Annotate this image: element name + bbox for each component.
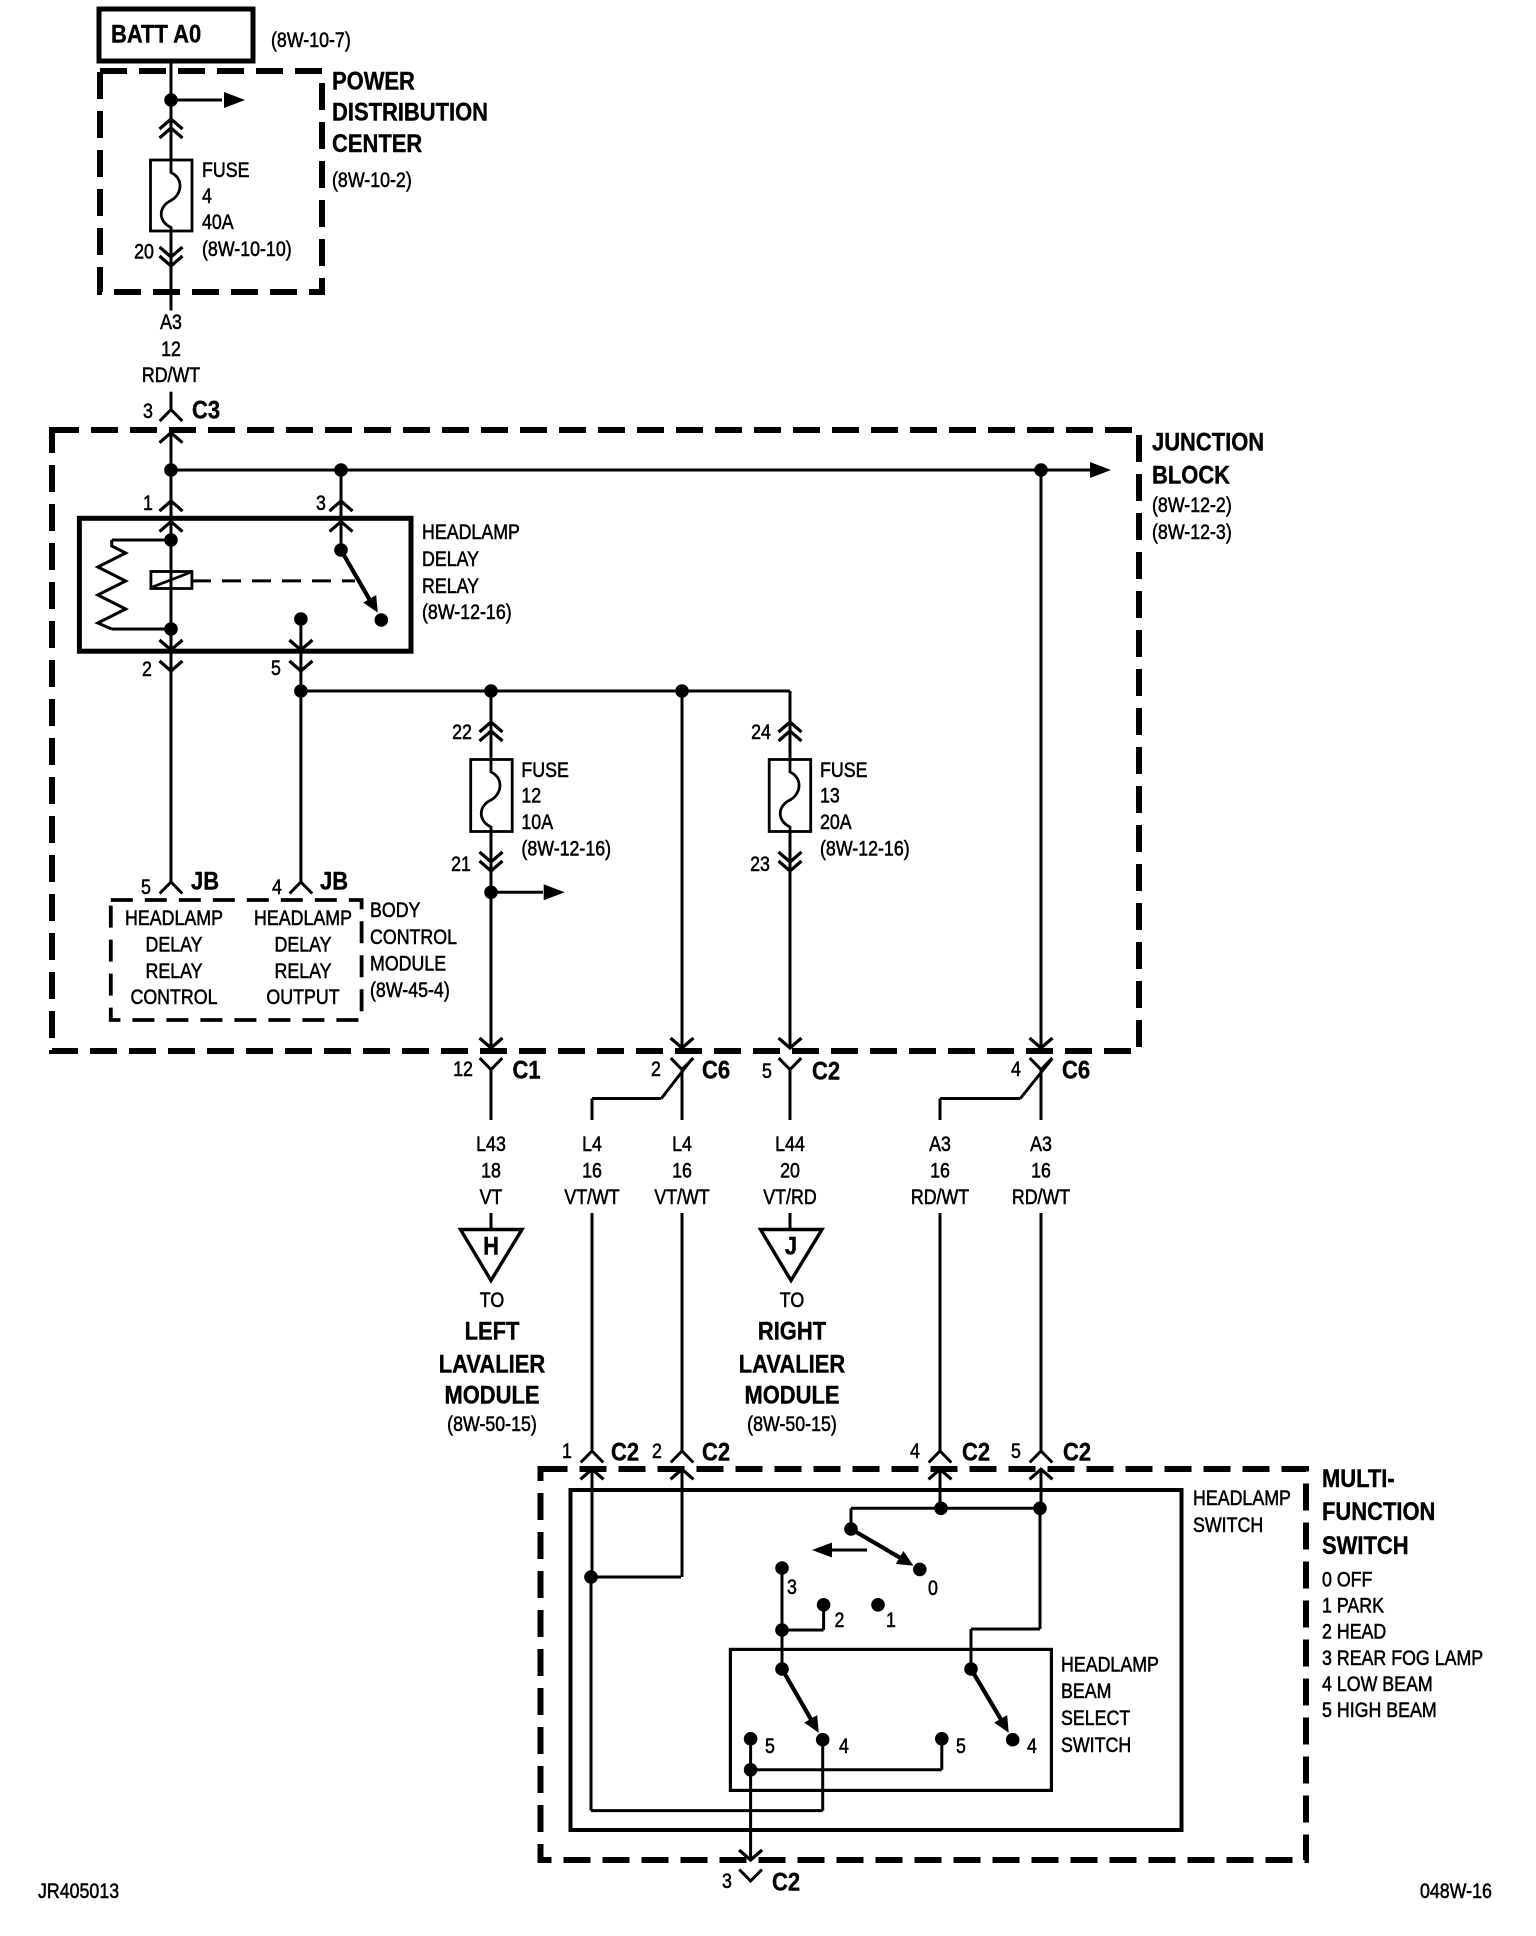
svg-text:3: 3 [143,400,153,424]
svg-text:C6: C6 [702,1056,730,1084]
svg-text:SWITCH: SWITCH [1061,1734,1131,1758]
svg-text:CENTER: CENTER [332,130,422,158]
svg-text:(8W-12-16): (8W-12-16) [521,837,611,861]
svg-text:JR405013: JR405013 [38,1880,119,1904]
svg-text:1 PARK: 1 PARK [1322,1594,1384,1618]
svg-text:1: 1 [562,1440,572,1464]
svg-text:C6: C6 [1062,1056,1090,1084]
svg-text:4: 4 [839,1735,849,1759]
svg-text:16: 16 [672,1159,692,1183]
svg-text:LAVALIER: LAVALIER [739,1350,845,1378]
svg-text:A3: A3 [929,1133,951,1157]
svg-text:JUNCTION: JUNCTION [1152,428,1264,456]
svg-text:22: 22 [452,721,472,745]
svg-text:5: 5 [956,1735,966,1759]
svg-text:FUSE: FUSE [521,758,568,782]
svg-text:2: 2 [651,1058,661,1082]
svg-text:C2: C2 [1063,1438,1091,1466]
svg-text:C2: C2 [812,1057,840,1085]
svg-text:SWITCH: SWITCH [1322,1532,1409,1560]
svg-text:(8W-10-7): (8W-10-7) [271,29,351,53]
svg-text:18: 18 [481,1159,501,1183]
svg-text:12: 12 [453,1058,473,1082]
svg-text:BLOCK: BLOCK [1152,461,1230,489]
svg-text:3 REAR FOG LAMP: 3 REAR FOG LAMP [1322,1647,1483,1671]
svg-text:16: 16 [1031,1159,1051,1183]
svg-text:048W-16: 048W-16 [1420,1880,1492,1904]
svg-text:2 HEAD: 2 HEAD [1322,1620,1386,1644]
svg-text:1: 1 [143,492,153,516]
svg-text:HEADLAMP: HEADLAMP [1061,1653,1159,1677]
svg-text:5: 5 [271,657,281,681]
svg-text:RD/WT: RD/WT [1012,1186,1070,1210]
svg-text:(8W-12-16): (8W-12-16) [422,601,512,625]
svg-text:JB: JB [320,867,348,895]
svg-text:RELAY: RELAY [145,960,202,984]
svg-text:SELECT: SELECT [1061,1707,1130,1731]
svg-text:C3: C3 [192,396,220,424]
svg-text:POWER: POWER [332,67,415,95]
svg-text:VT/WT: VT/WT [654,1186,709,1210]
svg-text:1: 1 [886,1609,896,1633]
svg-text:TO: TO [480,1289,504,1313]
svg-text:HEADLAMP: HEADLAMP [254,907,352,931]
svg-text:4: 4 [1027,1735,1037,1759]
svg-text:BEAM: BEAM [1061,1680,1111,1704]
svg-text:L44: L44 [775,1133,805,1157]
svg-text:40A: 40A [202,211,234,235]
svg-text:2: 2 [652,1440,662,1464]
svg-text:12: 12 [161,338,181,362]
svg-text:3: 3 [787,1576,797,1600]
svg-text:2: 2 [835,1609,845,1633]
svg-text:(8W-12-2): (8W-12-2) [1152,494,1232,518]
svg-text:RELAY: RELAY [422,575,479,599]
svg-text:21: 21 [451,853,471,877]
svg-text:DELAY: DELAY [145,933,202,957]
svg-text:16: 16 [582,1159,602,1183]
svg-text:CONTROL: CONTROL [130,986,217,1010]
svg-text:HEADLAMP: HEADLAMP [422,521,520,545]
svg-text:(8W-12-16): (8W-12-16) [820,837,910,861]
svg-text:VT/RD: VT/RD [763,1186,816,1210]
svg-text:5: 5 [1011,1440,1021,1464]
svg-text:H: H [483,1232,499,1260]
svg-text:FUSE: FUSE [202,159,249,183]
svg-text:HEADLAMP: HEADLAMP [125,907,223,931]
svg-text:24: 24 [751,721,771,745]
svg-text:OUTPUT: OUTPUT [266,986,339,1010]
svg-text:RELAY: RELAY [274,960,331,984]
svg-text:RIGHT: RIGHT [758,1317,827,1345]
svg-text:4: 4 [1011,1058,1021,1082]
svg-text:C2: C2 [962,1438,990,1466]
svg-text:L43: L43 [476,1133,506,1157]
svg-text:(8W-10-10): (8W-10-10) [202,238,292,262]
svg-text:23: 23 [750,853,770,877]
svg-text:L4: L4 [672,1133,692,1157]
svg-text:BATT A0: BATT A0 [111,20,201,48]
svg-text:C2: C2 [772,1868,800,1896]
svg-text:CONTROL: CONTROL [370,926,457,950]
svg-text:J: J [785,1232,797,1260]
svg-text:4: 4 [202,184,212,208]
svg-text:MODULE: MODULE [370,952,446,976]
svg-text:FUNCTION: FUNCTION [1322,1498,1435,1526]
svg-text:DELAY: DELAY [422,548,479,572]
svg-text:10A: 10A [521,811,553,835]
svg-text:(8W-50-15): (8W-50-15) [747,1413,837,1437]
svg-text:RD/WT: RD/WT [911,1186,969,1210]
svg-text:TO: TO [780,1289,804,1313]
svg-text:HEADLAMP: HEADLAMP [1193,1487,1291,1511]
svg-text:MODULE: MODULE [444,1381,539,1409]
svg-text:5 HIGH BEAM: 5 HIGH BEAM [1322,1699,1437,1723]
svg-text:JB: JB [191,867,219,895]
svg-text:FUSE: FUSE [820,758,867,782]
svg-text:0: 0 [928,1577,938,1601]
svg-text:12: 12 [521,784,541,808]
svg-text:20: 20 [134,240,154,264]
svg-text:VT/WT: VT/WT [564,1186,619,1210]
svg-text:3: 3 [722,1870,732,1894]
svg-text:0 OFF: 0 OFF [1322,1568,1373,1592]
svg-text:(8W-50-15): (8W-50-15) [447,1413,537,1437]
svg-text:4: 4 [910,1440,920,1464]
svg-text:13: 13 [820,784,840,808]
svg-text:A3: A3 [1030,1133,1052,1157]
svg-text:DISTRIBUTION: DISTRIBUTION [332,98,488,126]
svg-text:C1: C1 [513,1056,541,1084]
svg-text:RD/WT: RD/WT [142,364,200,388]
svg-text:C2: C2 [702,1438,730,1466]
svg-text:(8W-10-2): (8W-10-2) [332,169,412,193]
svg-text:5: 5 [765,1735,775,1759]
svg-text:3: 3 [316,492,326,516]
svg-text:A3: A3 [160,311,182,335]
svg-text:(8W-45-4): (8W-45-4) [370,979,450,1003]
svg-text:MODULE: MODULE [744,1381,839,1409]
svg-text:SWITCH: SWITCH [1193,1514,1263,1538]
svg-text:(8W-12-3): (8W-12-3) [1152,521,1232,545]
svg-text:20A: 20A [820,811,852,835]
svg-text:LEFT: LEFT [465,1317,520,1345]
svg-text:2: 2 [142,658,152,682]
svg-text:VT: VT [480,1186,503,1210]
svg-text:16: 16 [930,1159,950,1183]
svg-text:5: 5 [762,1060,772,1084]
svg-text:5: 5 [141,876,151,900]
svg-text:4: 4 [272,876,282,900]
svg-text:MULTI-: MULTI- [1322,1465,1395,1493]
svg-text:DELAY: DELAY [274,933,331,957]
svg-text:20: 20 [780,1159,800,1183]
svg-text:4 LOW BEAM: 4 LOW BEAM [1322,1673,1433,1697]
svg-text:C2: C2 [611,1438,639,1466]
svg-text:L4: L4 [582,1133,602,1157]
svg-text:LAVALIER: LAVALIER [439,1350,545,1378]
svg-text:BODY: BODY [370,899,420,923]
